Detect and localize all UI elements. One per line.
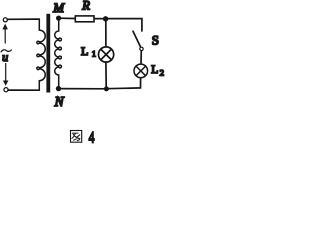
lamp L2 (134, 64, 148, 78)
node M (56, 16, 61, 21)
junction node (top, L1 branch) (103, 16, 108, 21)
wire: top junction to lamp L1 (105, 19, 107, 47)
caption glyph 图 (71, 131, 82, 143)
wire: lamp L2 to bottom (106, 78, 140, 89)
svg-text:L: L (151, 64, 158, 76)
wire: bottom-left terminal to primary (8, 89, 39, 91)
svg-text:L: L (81, 44, 88, 58)
svg-text:M: M (52, 0, 65, 15)
svg-text:S: S (152, 33, 159, 48)
transformer secondary winding (55, 18, 62, 89)
transformer core (46, 14, 50, 93)
lamp L1 (99, 47, 114, 62)
transformer primary winding (37, 19, 45, 90)
wire: switch to lamp L2 (140, 51, 142, 64)
svg-text:R: R (81, 0, 90, 13)
junction node (bottom, L1 branch) (104, 86, 109, 91)
wire: N to bottom junction (59, 88, 107, 90)
up arrow (AC source) (4, 29, 6, 43)
svg-text:4: 4 (89, 129, 95, 146)
svg-text:u: u (2, 50, 8, 64)
down arrow (AC source) (5, 64, 7, 82)
AC label tilde (1, 50, 11, 52)
wire: top-left terminal to primary (7, 18, 39, 20)
svg-text:N: N (54, 94, 65, 109)
wire: resistor to top junction (95, 18, 106, 20)
switch S blade (133, 31, 140, 46)
svg-text:1: 1 (92, 49, 96, 59)
AC source terminal (top-left) (3, 18, 7, 22)
wire: M to resistor R (59, 17, 75, 19)
resistor R (75, 16, 94, 22)
switch S hinge terminal (140, 47, 143, 50)
AC source terminal (bottom-left) (4, 88, 8, 92)
wire: lamp L1 to bottom junction (105, 62, 107, 87)
svg-text:2: 2 (160, 68, 164, 78)
wire: junction to switch branch corner (106, 19, 142, 31)
node N (56, 86, 61, 91)
